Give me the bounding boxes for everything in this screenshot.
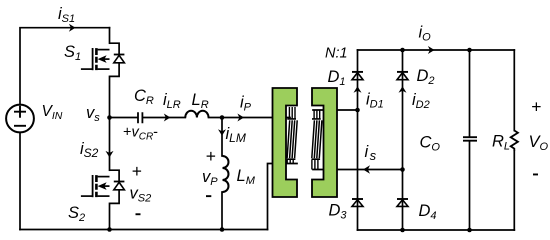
resistor RL — [511, 131, 518, 151]
node Co top rail — [467, 48, 472, 53]
wire RL branch — [513, 50, 515, 230]
voltage source VIN — [6, 105, 34, 133]
svg-text:+: + — [206, 146, 216, 166]
svg-text:+: + — [132, 161, 142, 181]
primary winding — [287, 107, 297, 164]
wire LM branch top — [221, 118, 223, 157]
current arrow iD1 — [354, 86, 362, 93]
inductor LM — [223, 156, 229, 192]
current arrow iS2 — [106, 151, 114, 158]
wire top-right rail — [358, 49, 515, 51]
wire LR to node and to transformer primary top — [209, 117, 291, 119]
wire S1 drain — [109, 28, 111, 44]
wire Co branch — [469, 50, 471, 230]
wire CR to LR — [143, 117, 185, 119]
svg-text:N:1: N:1 — [325, 46, 348, 62]
mosfet S1 — [81, 43, 125, 76]
node secondary bottom — [400, 167, 405, 172]
wire LM bottom to rail — [221, 192, 223, 230]
node vs junction — [107, 115, 112, 120]
node secondary top — [355, 108, 360, 113]
wire bottom-right rail — [358, 229, 515, 231]
wire S1 source to node vs — [109, 76, 111, 117]
wire secondary bottom with crossing — [313, 169, 403, 171]
wire vs to CR — [110, 117, 138, 119]
wire S2 source to bottom rail — [109, 203, 111, 229]
wire rectifier leg D1 D3 — [357, 50, 359, 230]
label VO minus — [533, 174, 538, 176]
inductor LR — [185, 111, 208, 118]
transformer core left — [273, 88, 298, 197]
wire vs node to S2 drain — [109, 118, 111, 171]
wire left rail top — [20, 28, 110, 105]
label vP minus — [206, 195, 211, 197]
capacitor CO — [463, 137, 477, 141]
svg-text:+: + — [531, 97, 541, 117]
node S2 bottom — [107, 227, 112, 232]
node Co bottom rail — [467, 228, 472, 233]
wire left rail bottom — [19, 133, 21, 230]
node D2 top rail — [400, 48, 405, 53]
current arrow iD2 — [399, 86, 407, 93]
transformer core right — [312, 88, 337, 197]
current arrow iO — [428, 46, 435, 54]
node LM bottom — [220, 227, 225, 232]
diode D2 — [397, 72, 408, 80]
diode D4 — [397, 199, 408, 206]
current arrow iP — [237, 114, 244, 122]
capacitor CR — [138, 112, 142, 123]
label vS2 minus — [136, 213, 141, 215]
wire rectifier leg D2 D4 — [402, 50, 404, 230]
secondary winding — [312, 110, 322, 170]
wire bottom-left rail — [20, 229, 268, 231]
diode D3 — [352, 199, 363, 206]
node LM tap — [220, 115, 225, 120]
mosfet S2 — [81, 170, 125, 203]
wire secondary top — [313, 109, 358, 111]
current arrow iLM — [218, 129, 226, 136]
current arrow iS1 — [69, 24, 76, 32]
node D4 bottom rail — [400, 228, 405, 233]
current arrow is — [363, 165, 370, 174]
wire primary bottom riser — [268, 164, 298, 230]
current arrow iLR — [164, 114, 171, 122]
diode D1 — [352, 72, 363, 80]
